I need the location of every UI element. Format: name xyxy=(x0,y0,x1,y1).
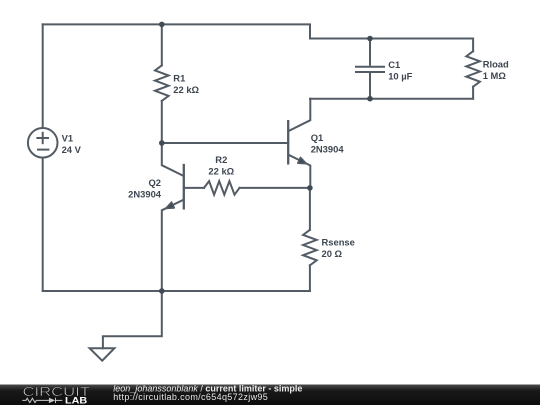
Q2 emitter arrow xyxy=(166,202,175,208)
R2 left lead xyxy=(184,187,204,189)
R1 top lead xyxy=(161,24,163,65)
svg-text:R2: R2 xyxy=(215,154,227,165)
capacitor C1 xyxy=(355,39,385,99)
resistor Rload xyxy=(466,39,480,99)
Rsense top lead xyxy=(309,188,311,230)
svg-text:22 kΩ: 22 kΩ xyxy=(208,166,234,177)
node B (Q1 emitter/R2/Rsense) xyxy=(307,185,313,191)
svg-text:22 kΩ: 22 kΩ xyxy=(173,84,199,95)
resistor Rsense xyxy=(303,188,317,291)
V1 minus sign xyxy=(38,149,48,151)
svg-text:V1: V1 xyxy=(62,133,73,144)
Rsense zigzag xyxy=(303,230,317,265)
logo diode xyxy=(49,398,55,403)
svg-text:R1: R1 xyxy=(173,73,185,84)
Q1 collector lead xyxy=(289,99,310,131)
wire ground branch xyxy=(103,291,162,348)
footer bar xyxy=(0,383,540,405)
C1 bottom lead xyxy=(369,73,371,99)
svg-text:LAB: LAB xyxy=(65,395,87,405)
wire bottom rail xyxy=(43,290,310,292)
wire top rail xyxy=(43,24,473,38)
V1 body circle xyxy=(28,128,58,158)
R2 right lead xyxy=(240,187,310,189)
svg-text:Rload: Rload xyxy=(483,58,509,69)
Rload bottom lead xyxy=(472,87,474,99)
node A (R1/Q2/Q1 base) xyxy=(159,140,165,146)
junction C1 bottom xyxy=(367,96,373,102)
voltage source V1 xyxy=(28,128,58,158)
svg-text:Rsense: Rsense xyxy=(322,236,355,247)
wire left vertical top (V1 to top rail) xyxy=(42,24,44,128)
Rload top lead xyxy=(472,39,474,52)
svg-text:2N3904: 2N3904 xyxy=(311,144,345,155)
svg-text:Q2: Q2 xyxy=(148,177,161,188)
svg-text:24 V: 24 V xyxy=(62,144,82,155)
Q1 emitter lead xyxy=(289,155,310,188)
Q2 emitter lead xyxy=(162,200,184,291)
Q1 base bar xyxy=(287,121,289,163)
node gnd (Q2 emitter/bottom rail) xyxy=(159,288,165,294)
junction R1 top xyxy=(159,22,165,28)
V1 plus sign xyxy=(37,137,48,139)
logo wire glyph xyxy=(22,398,62,403)
Rsense bottom lead xyxy=(309,265,311,291)
svg-text:Q1: Q1 xyxy=(311,132,324,143)
Rload zigzag xyxy=(466,51,480,86)
svg-text:20 Ω: 20 Ω xyxy=(322,248,343,259)
svg-text:C1: C1 xyxy=(388,59,400,70)
C1 bottom plate xyxy=(355,71,385,73)
R1 zigzag xyxy=(155,65,169,101)
svg-text:2N3904: 2N3904 xyxy=(128,189,162,200)
wire Q1 base (node A to Q1) xyxy=(162,142,288,144)
svg-text:1 MΩ: 1 MΩ xyxy=(483,70,507,81)
transistor Q1 xyxy=(288,99,310,188)
C1 top plate xyxy=(355,66,385,68)
C1 top lead xyxy=(369,39,371,66)
resistor R2 xyxy=(184,181,310,195)
Q1 emitter arrow xyxy=(298,157,307,163)
Q2 base bar xyxy=(183,165,185,208)
R2 zigzag xyxy=(204,181,240,195)
wire left vertical bottom (V1 to bottom rail) xyxy=(42,158,44,291)
ground symbol xyxy=(90,348,115,361)
svg-text:10 µF: 10 µF xyxy=(388,70,412,81)
transistor Q2 xyxy=(162,143,184,291)
svg-text:http://circuitlab.com/c654q572: http://circuitlab.com/c654q572zjw95 xyxy=(113,392,268,402)
junction C1 top xyxy=(367,36,373,42)
resistor R1 xyxy=(155,24,169,143)
wire mid rail (C1/Rload bottom) xyxy=(310,98,473,100)
Q2 collector lead xyxy=(162,143,184,176)
R1 bottom lead xyxy=(161,101,163,143)
